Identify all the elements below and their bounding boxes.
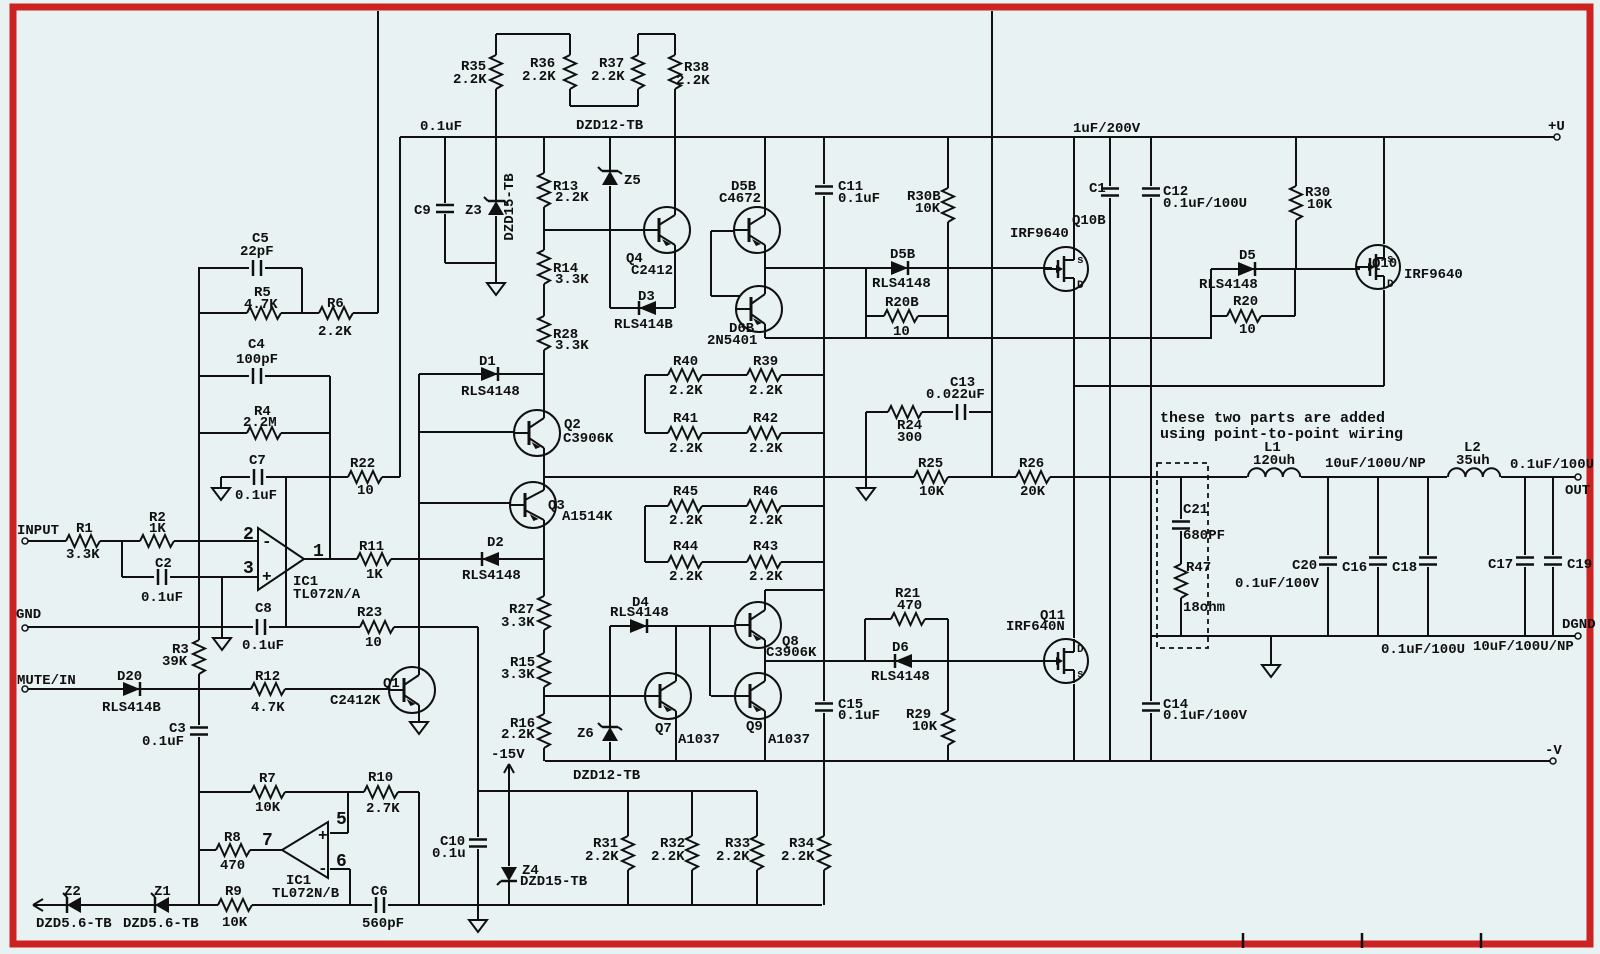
svg-text:0.1uF/100U: 0.1uF/100U: [1163, 196, 1247, 212]
svg-text:1: 1: [313, 542, 324, 562]
svg-text:2N5401: 2N5401: [707, 333, 757, 349]
svg-text:2.2K: 2.2K: [555, 190, 589, 206]
svg-text:10: 10: [1239, 322, 1256, 338]
svg-text:R26: R26: [1019, 456, 1044, 472]
svg-text:C3906K: C3906K: [766, 645, 817, 661]
svg-text:35uh: 35uh: [1456, 453, 1490, 469]
svg-text:D5: D5: [1239, 248, 1256, 264]
svg-text:2.2K: 2.2K: [749, 383, 783, 399]
svg-text:3.3K: 3.3K: [501, 615, 535, 631]
svg-text:3.3K: 3.3K: [501, 667, 535, 683]
svg-text:2.2K: 2.2K: [651, 849, 685, 865]
svg-text:DZD5.6-TB: DZD5.6-TB: [123, 916, 199, 932]
svg-text:C6: C6: [371, 884, 388, 900]
svg-text:DZD12-TB: DZD12-TB: [576, 118, 644, 134]
svg-text:C17: C17: [1488, 557, 1513, 573]
svg-text:470: 470: [220, 858, 245, 874]
svg-text:20K: 20K: [1020, 484, 1046, 500]
svg-text:C2412: C2412: [631, 263, 673, 279]
svg-text:10K: 10K: [915, 201, 941, 217]
svg-text:10uF/100U/NP: 10uF/100U/NP: [1473, 639, 1574, 655]
svg-text:DGND: DGND: [1562, 617, 1596, 633]
svg-text:5: 5: [336, 810, 347, 830]
svg-text:A1514K: A1514K: [562, 509, 613, 525]
svg-text:7: 7: [262, 831, 273, 851]
svg-text:0.1uF: 0.1uF: [838, 708, 880, 724]
svg-text:OUT: OUT: [1565, 483, 1590, 499]
svg-text:Q7: Q7: [655, 721, 672, 737]
svg-text:2.2K: 2.2K: [591, 69, 625, 85]
svg-text:1K: 1K: [149, 521, 166, 537]
svg-text:DZD5.6-TB: DZD5.6-TB: [36, 916, 112, 932]
svg-text:C8: C8: [255, 601, 272, 617]
svg-text:0.1uF/100V: 0.1uF/100V: [1235, 576, 1320, 592]
svg-text:RLS4148: RLS4148: [1199, 277, 1258, 293]
svg-text:R7: R7: [259, 771, 276, 787]
svg-text:Q9: Q9: [746, 719, 763, 735]
svg-text:RLS4148: RLS4148: [461, 384, 520, 400]
svg-text:D5B: D5B: [890, 247, 916, 263]
svg-text:R22: R22: [350, 456, 375, 472]
svg-text:3.3K: 3.3K: [66, 547, 100, 563]
svg-text:2.2K: 2.2K: [669, 569, 703, 585]
svg-text:3.3K: 3.3K: [555, 272, 589, 288]
svg-text:2.2K: 2.2K: [669, 441, 703, 457]
svg-text:A1037: A1037: [678, 732, 720, 748]
svg-text:INPUT: INPUT: [17, 523, 59, 539]
svg-text:R20B: R20B: [885, 295, 919, 311]
svg-text:10: 10: [893, 324, 910, 340]
svg-text:DZD12-TB: DZD12-TB: [573, 768, 641, 784]
svg-text:560pF: 560pF: [362, 916, 404, 932]
svg-text:R10: R10: [368, 770, 393, 786]
svg-text:s: s: [1387, 254, 1394, 266]
svg-text:+: +: [262, 568, 272, 586]
svg-text:R23: R23: [357, 605, 382, 621]
svg-text:0.1uF: 0.1uF: [838, 191, 880, 207]
svg-text:C2412K: C2412K: [330, 693, 381, 709]
svg-text:10K: 10K: [222, 915, 248, 931]
svg-text:18ohm: 18ohm: [1183, 600, 1225, 616]
svg-text:A1037: A1037: [768, 732, 810, 748]
svg-text:6: 6: [336, 852, 347, 872]
svg-text:DZD15-TB: DZD15-TB: [520, 874, 588, 890]
svg-text:D20: D20: [117, 669, 142, 685]
svg-text:TL072N/A: TL072N/A: [293, 587, 361, 603]
svg-text:10K: 10K: [912, 719, 938, 735]
svg-text:2.2K: 2.2K: [781, 849, 815, 865]
svg-text:100pF: 100pF: [236, 352, 278, 368]
svg-text:10: 10: [365, 635, 382, 651]
svg-text:Z3: Z3: [465, 203, 482, 219]
svg-text:4.7K: 4.7K: [251, 700, 285, 716]
svg-text:R43: R43: [753, 539, 778, 555]
svg-text:s: s: [1077, 255, 1084, 267]
svg-text:C2: C2: [155, 556, 172, 572]
svg-text:GND: GND: [16, 607, 41, 623]
svg-text:-: -: [318, 860, 328, 878]
svg-text:2.2K: 2.2K: [716, 849, 750, 865]
svg-text:3.3K: 3.3K: [555, 338, 589, 354]
svg-text:RLS4148: RLS4148: [871, 669, 930, 685]
svg-text:10uF/100U/NP: 10uF/100U/NP: [1325, 456, 1426, 472]
svg-text:C1: C1: [1089, 181, 1106, 197]
svg-text:0.1uF: 0.1uF: [235, 488, 277, 504]
svg-text:C21: C21: [1183, 502, 1208, 518]
svg-text:C4672: C4672: [719, 191, 761, 207]
svg-text:RLS414B: RLS414B: [102, 700, 161, 716]
svg-text:D3: D3: [638, 289, 655, 305]
svg-text:2.2K: 2.2K: [749, 441, 783, 457]
svg-text:Z2: Z2: [64, 884, 81, 900]
svg-text:2.2K: 2.2K: [585, 849, 619, 865]
svg-text:R46: R46: [753, 484, 778, 500]
svg-text:D: D: [1077, 644, 1084, 656]
svg-text:C19: C19: [1567, 557, 1592, 573]
svg-text:D2: D2: [487, 535, 504, 551]
svg-text:0.1uF: 0.1uF: [141, 590, 183, 606]
svg-text:DZD15-TB: DZD15-TB: [502, 173, 518, 241]
svg-text:1K: 1K: [366, 567, 383, 583]
svg-text:2.2K: 2.2K: [749, 569, 783, 585]
svg-text:470: 470: [897, 598, 922, 614]
svg-text:+: +: [318, 827, 328, 845]
svg-text:39K: 39K: [162, 654, 188, 670]
svg-text:R47: R47: [1186, 560, 1211, 576]
svg-text:0.1uF: 0.1uF: [242, 638, 284, 654]
svg-text:C7: C7: [249, 453, 266, 469]
svg-text:0.1u: 0.1u: [432, 846, 466, 862]
svg-text:2.2K: 2.2K: [318, 324, 352, 340]
svg-text:R44: R44: [673, 539, 698, 555]
svg-text:1uF/200V: 1uF/200V: [1073, 121, 1141, 137]
svg-text:R9: R9: [225, 884, 242, 900]
svg-text:R20: R20: [1233, 294, 1258, 310]
svg-text:2.2K: 2.2K: [676, 73, 710, 89]
svg-text:s: s: [1077, 669, 1084, 681]
svg-text:3: 3: [243, 559, 254, 579]
svg-text:10: 10: [357, 483, 374, 499]
svg-text:2.2M: 2.2M: [243, 415, 277, 431]
svg-text:2.7K: 2.7K: [366, 801, 400, 817]
svg-text:2: 2: [243, 525, 254, 545]
svg-text:C20: C20: [1292, 558, 1317, 574]
svg-text:IRF9640: IRF9640: [1010, 226, 1069, 242]
svg-text:these two parts are added: these two parts are added: [1160, 410, 1385, 427]
svg-text:R11: R11: [359, 539, 384, 555]
svg-text:2.2K: 2.2K: [669, 383, 703, 399]
svg-text:D6: D6: [892, 640, 909, 656]
svg-text:C9: C9: [414, 203, 431, 219]
svg-text:RLS4148: RLS4148: [462, 568, 521, 584]
svg-text:R40: R40: [673, 354, 698, 370]
svg-text:C18: C18: [1392, 560, 1417, 576]
svg-text:C4: C4: [248, 337, 265, 353]
svg-text:2.2K: 2.2K: [669, 513, 703, 529]
svg-text:R45: R45: [673, 484, 698, 500]
svg-text:RLS414B: RLS414B: [614, 317, 673, 333]
svg-text:R42: R42: [753, 411, 778, 427]
svg-text:2.2K: 2.2K: [749, 513, 783, 529]
svg-text:Z6: Z6: [577, 726, 594, 742]
svg-text:10K: 10K: [1307, 197, 1333, 213]
svg-text:2.2K: 2.2K: [522, 69, 556, 85]
svg-text:-15V: -15V: [491, 747, 525, 763]
svg-text:Q1: Q1: [383, 676, 400, 692]
svg-text:RLS4148: RLS4148: [610, 605, 669, 621]
svg-text:0.1uF: 0.1uF: [420, 119, 462, 135]
svg-text:Q10B: Q10B: [1072, 213, 1106, 229]
svg-text:-V: -V: [1545, 743, 1562, 759]
svg-text:MUTE/IN: MUTE/IN: [17, 673, 76, 689]
svg-text:22pF: 22pF: [240, 244, 274, 260]
svg-text:R1: R1: [76, 521, 93, 537]
svg-text:Z5: Z5: [624, 173, 641, 189]
svg-text:120uh: 120uh: [1253, 453, 1295, 469]
svg-text:0.1uF/100U: 0.1uF/100U: [1510, 457, 1594, 473]
svg-text:RLS4148: RLS4148: [872, 276, 931, 292]
svg-text:+U: +U: [1548, 119, 1565, 135]
svg-text:using point-to-point wiring: using point-to-point wiring: [1160, 426, 1403, 443]
svg-text:R12: R12: [255, 669, 280, 685]
svg-text:2.2K: 2.2K: [501, 727, 535, 743]
svg-text:300: 300: [897, 430, 922, 446]
svg-text:0.1uF: 0.1uF: [142, 734, 184, 750]
svg-text:0.1uF/100U: 0.1uF/100U: [1381, 642, 1465, 658]
svg-text:IRF9640: IRF9640: [1404, 267, 1463, 283]
svg-text:R6: R6: [327, 296, 344, 312]
svg-text:IRF640N: IRF640N: [1006, 619, 1065, 635]
svg-text:680PF: 680PF: [1183, 528, 1225, 544]
svg-text:4.7K: 4.7K: [244, 297, 278, 313]
svg-text:C16: C16: [1342, 560, 1367, 576]
svg-text:0.022uF: 0.022uF: [926, 387, 985, 403]
svg-text:R41: R41: [673, 411, 698, 427]
svg-text:-: -: [262, 533, 272, 551]
svg-text:C3906K: C3906K: [563, 431, 614, 447]
svg-text:D: D: [1387, 279, 1394, 291]
svg-text:10K: 10K: [919, 484, 945, 500]
svg-text:Z1: Z1: [154, 884, 171, 900]
svg-text:TL072N/B: TL072N/B: [272, 886, 340, 902]
svg-text:R8: R8: [224, 830, 241, 846]
svg-text:10K: 10K: [255, 800, 281, 816]
svg-text:D1: D1: [479, 354, 496, 370]
svg-text:R25: R25: [918, 456, 943, 472]
svg-text:2.2K: 2.2K: [453, 72, 487, 88]
svg-text:D: D: [1077, 280, 1084, 292]
svg-text:R39: R39: [753, 354, 778, 370]
svg-text:0.1uF/100V: 0.1uF/100V: [1163, 708, 1248, 724]
